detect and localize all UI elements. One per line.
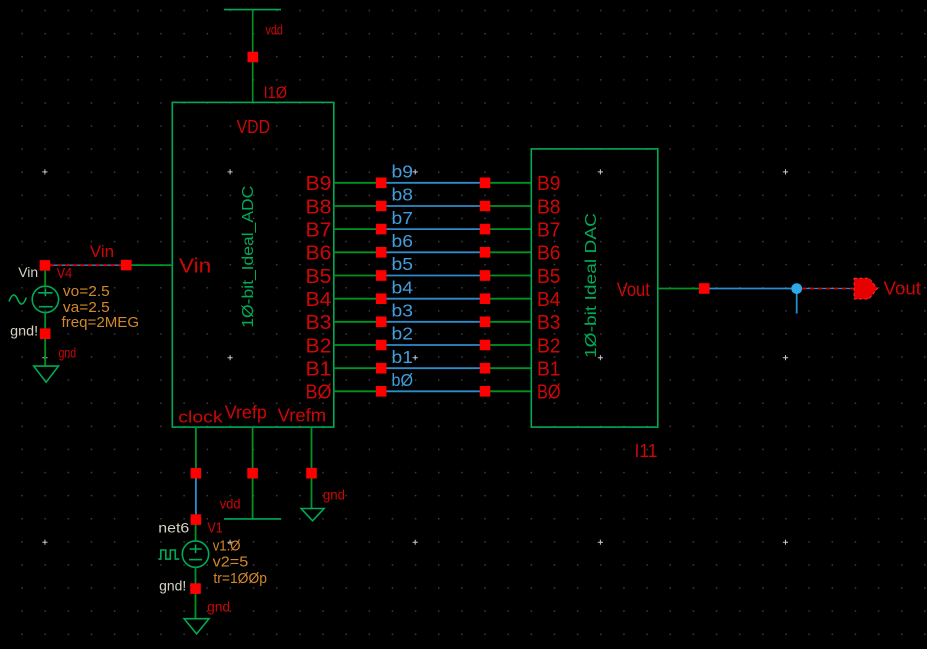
pin square DAC B5 [480, 270, 491, 281]
ADC instance I10 body [172, 102, 333, 427]
svg-text:tr=1ØØp: tr=1ØØp [213, 570, 267, 587]
voltage source V4 (vsin) [9, 286, 59, 312]
wire net b2: ADC B2 to DAC B2 [334, 344, 532, 346]
pin square wire Vin end [121, 260, 132, 271]
svg-text:b4: b4 [392, 277, 414, 297]
wire vdd rail to ADC VDD pin [252, 10, 254, 103]
svg-text:b2: b2 [392, 324, 414, 344]
ground symbol gnd (Vrefm) [301, 509, 324, 521]
svg-text:V4: V4 [57, 265, 72, 282]
node junction Vout (blue dot) [791, 283, 802, 294]
svg-text:b5: b5 [392, 254, 414, 274]
svg-text:vo=2.5: vo=2.5 [63, 283, 110, 300]
wire DAC Vout pin [658, 288, 699, 290]
DAC instance I11 body [531, 149, 658, 427]
pin square DAC B2 [480, 340, 491, 351]
pin square clock [191, 468, 202, 479]
pin square ADC B9 [376, 178, 387, 189]
pin square DAC B9 [480, 178, 491, 189]
svg-text:Vout: Vout [884, 279, 922, 299]
svg-text:B7: B7 [306, 219, 332, 241]
svg-text:gnd!: gnd! [159, 578, 186, 594]
svg-text:1Ø-bit_Ideal_ADC: 1Ø-bit_Ideal_ADC [240, 186, 257, 328]
voltage source V1 (vpulse) [158, 541, 208, 567]
pin square V4 plus terminal / net Vin [40, 260, 51, 271]
svg-text:I11: I11 [635, 441, 658, 461]
pin square ADC B6 [376, 247, 387, 258]
pin square DAC B0 [480, 386, 491, 397]
wire stub below Vout node [796, 289, 798, 314]
svg-text:b9: b9 [392, 162, 414, 182]
svg-text:B9: B9 [306, 173, 332, 195]
power symbol vdd (Vrefp) [224, 518, 281, 520]
svg-text:B3: B3 [537, 312, 561, 334]
pin square ADC B0 [376, 386, 387, 397]
svg-text:B1: B1 [537, 358, 561, 380]
pin square ADC B7 [376, 224, 387, 235]
pin square V4 minus terminal / net gnd! [40, 328, 51, 339]
svg-text:B8: B8 [537, 196, 561, 218]
pin square V1 plus terminal / net net6 [191, 514, 202, 525]
wire net b5: ADC B5 to DAC B5 [334, 275, 532, 277]
svg-text:1Ø-bit Ideal DAC: 1Ø-bit Ideal DAC [583, 213, 600, 358]
pin square Vrefm [306, 468, 317, 479]
svg-text:B6: B6 [306, 243, 332, 265]
svg-text:clock: clock [178, 407, 223, 426]
svg-text:v1:Ø: v1:Ø [213, 538, 241, 555]
svg-text:gnd!: gnd! [10, 322, 38, 338]
svg-text:B2: B2 [537, 335, 561, 357]
wire net b6: ADC B6 to DAC B6 [334, 251, 532, 253]
pin square Vout wire start [699, 283, 710, 294]
wire ADC clock pin down [195, 427, 197, 468]
wire net b9: ADC B9 to DAC B9 [334, 182, 532, 184]
svg-text:b8: b8 [392, 185, 414, 205]
svg-text:Vin: Vin [90, 242, 114, 261]
pin square Vrefp [247, 468, 258, 479]
svg-text:Vrefm: Vrefm [278, 405, 327, 425]
output pin symbol Vout [854, 278, 877, 299]
pin square DAC B3 [480, 317, 491, 328]
svg-text:B4: B4 [537, 289, 561, 311]
svg-text:Vrefp: Vrefp [225, 402, 267, 422]
svg-text:v2=5: v2=5 [213, 554, 249, 571]
svg-text:B7: B7 [537, 219, 561, 241]
svg-text:b1: b1 [392, 347, 414, 367]
wire net Vout (blue) [710, 288, 797, 290]
svg-text:BØ: BØ [537, 382, 561, 404]
wire V4 minus to gnd [44, 313, 46, 367]
wire Vrefp to vdd symbol [252, 478, 254, 519]
wire ADC Vrefm pin down [311, 427, 313, 468]
ground symbol gnd (V1) [184, 619, 209, 634]
svg-text:freq=2MEG: freq=2MEG [62, 314, 140, 331]
wire ADC Vrefp pin down [252, 427, 254, 468]
wire net b0: ADC B0 to DAC B0 [334, 390, 532, 392]
pin square DAC B6 [480, 247, 491, 258]
svg-text:I1Ø: I1Ø [264, 84, 288, 102]
svg-text:B4: B4 [306, 289, 332, 311]
wire net b4: ADC B4 to DAC B4 [334, 298, 532, 300]
svg-text:b3: b3 [392, 301, 414, 321]
pin square DAC B4 [480, 293, 491, 304]
wire net b3: ADC B3 to DAC B3 [334, 321, 532, 323]
svg-text:bØ: bØ [392, 370, 414, 390]
svg-text:B6: B6 [537, 243, 561, 265]
svg-text:BØ: BØ [306, 382, 332, 404]
pin square DAC B7 [480, 224, 491, 235]
svg-text:B3: B3 [306, 312, 332, 334]
svg-text:gnd: gnd [59, 346, 77, 361]
svg-text:Vin: Vin [18, 264, 38, 280]
pin square V1 minus terminal / net gnd! [190, 583, 201, 594]
svg-text:B8: B8 [306, 196, 332, 218]
svg-text:Vout: Vout [617, 280, 651, 301]
svg-text:b6: b6 [392, 231, 414, 251]
power symbol vdd (top rail) [224, 9, 281, 11]
svg-text:V1: V1 [207, 519, 222, 536]
pin square DAC B8 [480, 201, 491, 212]
svg-text:B9: B9 [537, 173, 561, 195]
wire net b7: ADC B7 to DAC B7 [334, 228, 532, 230]
wire net net6 (blue, clock to V1) [195, 478, 197, 514]
pin square ADC B1 [376, 363, 387, 374]
wire net6 square to V1 [195, 525, 197, 541]
svg-text:net6: net6 [158, 519, 189, 535]
wire net Vin (dashed, V4 to pin) [50, 264, 122, 266]
pin square ADC VDD terminal [248, 52, 259, 63]
wire V4 plus to pin [44, 271, 46, 287]
svg-text:vdd: vdd [266, 23, 283, 38]
svg-text:gnd: gnd [323, 488, 345, 503]
pin square ADC B3 [376, 317, 387, 328]
wire net b8: ADC B8 to DAC B8 [334, 205, 532, 207]
wire Vrefm to gnd symbol [311, 478, 313, 508]
wire V1 minus to gnd [195, 567, 197, 618]
svg-text:B5: B5 [537, 266, 561, 288]
wire Vin to ADC Vin pin [132, 264, 173, 266]
svg-text:B5: B5 [306, 266, 332, 288]
pin square ADC B5 [376, 270, 387, 281]
svg-text:B1: B1 [306, 358, 332, 380]
pin square ADC B2 [376, 340, 387, 351]
svg-text:Vin: Vin [179, 256, 211, 278]
pin square ADC B4 [376, 293, 387, 304]
svg-text:gnd: gnd [207, 600, 230, 615]
svg-text:b7: b7 [392, 208, 414, 228]
pin square ADC B8 [376, 201, 387, 212]
wire net b1: ADC B1 to DAC B1 [334, 367, 532, 369]
svg-text:B2: B2 [306, 335, 332, 357]
svg-text:VDD: VDD [237, 116, 270, 137]
svg-text:vdd: vdd [220, 496, 241, 512]
pin square DAC B1 [480, 363, 491, 374]
wire Vout node to output pin (dashed) [802, 288, 854, 290]
ground symbol gnd (V4) [34, 366, 59, 382]
